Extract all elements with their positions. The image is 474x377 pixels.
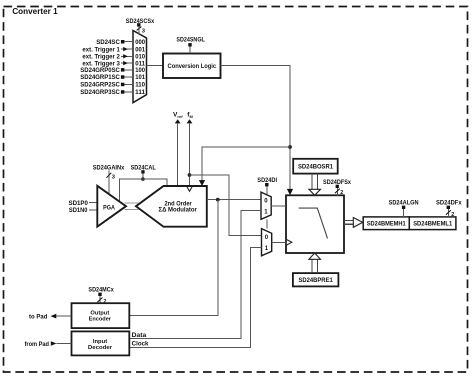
- node SD24GRP0SC: [80, 67, 133, 74]
- node ext. Trigger 2: [82, 54, 133, 61]
- svg-text:from Pad: from Pad: [25, 341, 50, 348]
- svg-text:SD24SC: SD24SC: [96, 39, 120, 46]
- node SD24SC: [96, 39, 133, 46]
- svg-text:SD1P0: SD1P0: [69, 200, 89, 207]
- fM clock open arrowhead at modulator: [187, 186, 193, 191]
- node SD24CAL: [131, 164, 156, 179]
- input decoder block: [72, 331, 130, 355]
- node SD24GRP1SC: [80, 74, 133, 81]
- net Data: [132, 333, 147, 339]
- SD24BOSR1 register: [293, 159, 338, 174]
- wire SD24CAL loop: [120, 179, 167, 202]
- net Clock: [132, 341, 149, 347]
- svg-text:100: 100: [135, 67, 145, 74]
- conversion logic U1: [163, 54, 221, 79]
- filter U3 sinc block: [286, 195, 344, 253]
- node Vref: [173, 112, 183, 186]
- node ext. Trigger 1: [82, 46, 133, 53]
- modulator U2 2nd Order SD: [136, 186, 207, 227]
- wire Clock to mux2 input 1: [129, 248, 261, 348]
- svg-text:to Pad: to Pad: [29, 313, 48, 320]
- wire PGA to modulator (differential pair): [124, 203, 138, 210]
- node SD1P0: [69, 200, 98, 207]
- svg-text:Decoder: Decoder: [88, 345, 113, 351]
- output encoder block: [72, 303, 130, 328]
- junction SD24CAL: [141, 177, 145, 181]
- svg-text:SD24SNGL: SD24SNGL: [176, 37, 204, 44]
- svg-text:SD24DI: SD24DI: [257, 177, 277, 184]
- node SD24DFx: [436, 200, 462, 218]
- node to Pad: [29, 313, 72, 320]
- wire mux2 output to filter: [272, 239, 292, 245]
- node SD24GAINx: [93, 164, 125, 194]
- svg-text:Converter 1: Converter 1: [12, 6, 58, 16]
- svg-text:ΣΔ Modulator: ΣΔ Modulator: [159, 207, 198, 214]
- svg-text:SD24BPRE1: SD24BPRE1: [298, 278, 333, 284]
- node SD24ALGN: [389, 200, 419, 217]
- svg-text:SD24GRP1SC: SD24GRP1SC: [80, 74, 120, 81]
- svg-text:Input: Input: [93, 339, 107, 345]
- node SD24SCSx select bus: [126, 18, 155, 34]
- svg-text:ext. Trigger 1: ext. Trigger 1: [82, 46, 120, 53]
- svg-text:SD24GAINx: SD24GAINx: [93, 164, 125, 171]
- bus SD24BPRE1 to filter: [309, 253, 321, 273]
- register SD24BMEMH1: [363, 217, 409, 230]
- wire modulator output to output encoder: [129, 200, 218, 316]
- svg-text:SD24GRP3SC: SD24GRP3SC: [80, 89, 120, 96]
- node SD24GRP2SC: [80, 82, 133, 89]
- op-amp PGA: [97, 186, 126, 227]
- node ext. Trigger 3: [82, 60, 133, 67]
- bus filter to memory registers: [344, 218, 363, 228]
- svg-text:Output: Output: [90, 311, 109, 317]
- wire modulator output to mux1 input 0: [207, 199, 261, 201]
- node SD24GRP3SC: [80, 89, 133, 96]
- junction conversion start: [288, 145, 292, 149]
- wire fM to mux2 input 0: [190, 175, 262, 236]
- junction modulator output: [216, 198, 220, 202]
- svg-text:101: 101: [135, 74, 145, 81]
- svg-text:2: 2: [340, 190, 343, 196]
- svg-text:Data: Data: [132, 333, 147, 339]
- svg-text:000: 000: [135, 39, 145, 46]
- register SD24BPRE1: [293, 273, 339, 286]
- wire mux1 output to filter: [271, 205, 286, 207]
- node SD24SNGL: [176, 37, 204, 54]
- node fM clock: [187, 112, 194, 186]
- svg-text:Encoder: Encoder: [89, 317, 112, 323]
- svg-text:2: 2: [451, 212, 454, 218]
- register SD24BMEML1: [409, 217, 456, 230]
- wire mux1 select link to mux2: [266, 219, 268, 228]
- wire Data to mux1 input 1: [129, 211, 261, 339]
- wire conversion logic to filter (conversion start): [221, 66, 294, 196]
- svg-text:SD24GRP0SC: SD24GRP0SC: [80, 67, 120, 74]
- svg-text:PGA: PGA: [103, 204, 115, 211]
- svg-text:111: 111: [135, 89, 145, 96]
- wire feedback to modulator trigger: [199, 147, 290, 186]
- svg-text:SD24GRP2SC: SD24GRP2SC: [80, 82, 120, 89]
- svg-text:SD24BMEML1: SD24BMEML1: [413, 222, 453, 228]
- node SD24MCx: [88, 287, 114, 305]
- svg-text:SD1N0: SD1N0: [69, 207, 88, 214]
- node from Pad: [25, 341, 72, 348]
- node SD1N0: [69, 207, 97, 214]
- bus SD24BOSR1 to filter: [309, 174, 321, 196]
- svg-text:001: 001: [135, 46, 145, 53]
- svg-text:SD24BMEMH1: SD24BMEMH1: [367, 222, 407, 228]
- wire mux to conversion logic: [147, 65, 164, 67]
- node SD24DI: [257, 177, 277, 195]
- svg-text:Conversion Logic: Conversion Logic: [168, 64, 217, 70]
- junction fM: [188, 173, 192, 177]
- svg-text:Clock: Clock: [132, 341, 149, 347]
- mux2 clock select: [262, 229, 272, 256]
- svg-text:110: 110: [135, 82, 145, 89]
- label Converter 1: [12, 6, 58, 16]
- trigger select mux: [133, 31, 147, 103]
- node SD24DFSx: [323, 179, 351, 196]
- svg-text:SD24BOSR1: SD24BOSR1: [298, 165, 334, 171]
- mux1 data select: [261, 192, 271, 219]
